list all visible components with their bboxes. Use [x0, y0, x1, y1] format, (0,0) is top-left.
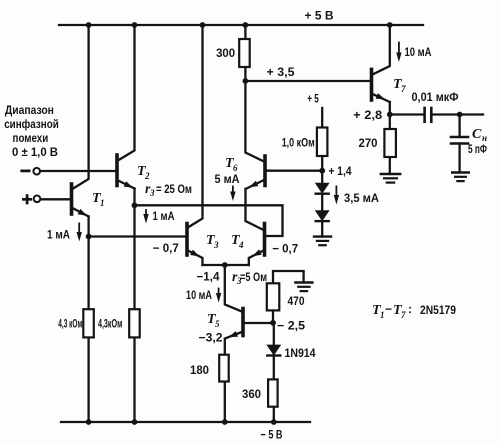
wire T2 emitter down to node: [133, 189, 135, 206]
svg-text:1: 1: [100, 198, 105, 208]
wire emitter bus T3-T4: [203, 264, 249, 266]
svg-text:= 25 Ом: = 25 Ом: [156, 182, 192, 196]
svg-text:2N5179: 2N5179: [420, 303, 456, 317]
wire T3 collector to +5V rail: [187, 25, 203, 228]
svg-text:−: −: [385, 302, 392, 316]
svg-text:1N914: 1N914: [285, 346, 316, 360]
svg-text:+ 2,8: + 2,8: [353, 108, 382, 122]
transistor T2 base bar: [115, 155, 119, 186]
svg-text:=5 Ом: =5 Ом: [240, 270, 267, 284]
junction T2 collector on +5V rail: [132, 22, 138, 28]
diode D2 bias: [316, 211, 329, 221]
wire +3.5 node to T7 base: [245, 80, 369, 82]
wire R 4.3k right to -5V rail: [133, 337, 135, 422]
transistor T5 base bar: [241, 309, 245, 336]
wire +2.8 node to coupling cap: [390, 113, 425, 115]
load capacitor Cn plates: [451, 137, 468, 144]
svg-text:360: 360: [242, 387, 261, 401]
junction R4.3k right on -5V rail: [132, 419, 138, 425]
node +1.4: [319, 168, 325, 174]
wire R270 to ground: [389, 157, 391, 174]
resistor 4.3 kOhm left: [83, 309, 94, 337]
svg-text:+ 5 В: + 5 В: [305, 9, 334, 23]
junction R4.3k left on -5V rail: [86, 419, 92, 425]
plus sign at input: [23, 196, 30, 203]
svg-text:синфазной: синфазной: [4, 117, 59, 131]
svg-text:10 мА: 10 мА: [405, 45, 432, 59]
wire T5 emitter down to R180: [225, 332, 243, 355]
node T3-T4 emitters: [222, 262, 228, 268]
wire R300 to +3.5 node: [244, 67, 246, 81]
T2 emitter arrow: [124, 181, 133, 188]
coupling capacitor 0.01 uF plates: [425, 108, 432, 122]
current arrow 1 mA middle: [145, 210, 147, 216]
node +2.8: [387, 112, 393, 118]
wire T4 emitter to common bus: [249, 250, 265, 265]
svg-text:−3,2: −3,2: [199, 331, 223, 345]
current arrow 10 mA lower: [218, 289, 220, 295]
current arrow 10 mA top: [398, 43, 400, 55]
wire R360 to -5V rail: [273, 407, 275, 422]
current arrow 5 mA: [232, 187, 234, 194]
resistor 180 Ohm: [219, 355, 229, 382]
wire +1.4 node to diode D1: [321, 171, 323, 184]
wire -2.5 node to 1N914: [273, 323, 275, 345]
T2 emitter diagonal: [117, 180, 135, 189]
svg-text:−1,4: −1,4: [197, 270, 220, 284]
junction R300 on +5V rail: [243, 22, 249, 28]
wire T3 emitter to common bus: [187, 250, 203, 265]
T5 emitter arrow: [229, 331, 239, 337]
svg-text:180: 180: [190, 363, 209, 377]
T7 emitter arrow: [376, 93, 385, 99]
junction T7 collector on +5V rail: [387, 22, 393, 28]
wire T6 collector to +3.5 node: [245, 81, 265, 162]
wire node T1emitter to T3 base: [89, 235, 185, 237]
svg-text:1 мА: 1 мА: [153, 209, 175, 223]
resistor 300 Ohm: [239, 39, 250, 67]
wire +5V top rail: [59, 24, 423, 26]
wire T7 emitter down to +2.8 node: [389, 102, 391, 115]
wire R1k to +1.4 node: [321, 156, 323, 171]
wire +2.8 node down to R270: [389, 115, 391, 130]
junction R180 on -5V rail: [222, 419, 228, 425]
svg-text:5 пФ: 5 пФ: [468, 142, 487, 156]
svg-text:+ 1,4: + 1,4: [329, 164, 352, 178]
wire T1 emitter down to node: [87, 217, 89, 237]
wire diode D1 to diode D2: [321, 194, 323, 211]
svg-text:1,0 кОм: 1,0 кОм: [282, 136, 315, 150]
resistor 360 Ohm: [268, 379, 278, 406]
svg-text:0 ± 1,0 В: 0 ± 1,0 В: [12, 145, 58, 159]
wire output node down to Cn: [458, 115, 460, 138]
wire R470 top bend to ground: [273, 271, 304, 283]
ground near R470: [295, 283, 312, 292]
wire minus input to T2 base: [40, 170, 115, 172]
svg-text:1: 1: [380, 310, 385, 320]
junction T3 collector on +5V rail: [200, 22, 206, 28]
svg-text:4: 4: [238, 240, 244, 250]
T1 emitter arrow: [78, 209, 87, 216]
svg-text:3,5 мА: 3,5 мА: [344, 191, 379, 205]
node output: [457, 112, 463, 118]
transistor T6 base bar: [263, 156, 267, 186]
wire T2 emitter node to T4 base wrap: [135, 205, 283, 236]
svg-text:3: 3: [213, 240, 219, 250]
svg-text:− 2,5: − 2,5: [277, 319, 305, 333]
wire T5 base to -2.5 node: [245, 322, 273, 324]
resistor 4.3 kOhm right: [129, 309, 140, 337]
svg-text:10 мА: 10 мА: [186, 288, 212, 302]
wire plus input to T1 base: [40, 198, 69, 200]
svg-text:0,01 мкФ: 0,01 мкФ: [412, 90, 459, 104]
svg-text:2: 2: [144, 171, 150, 181]
wire -5V bottom rail: [61, 421, 310, 423]
junction R360 on -5V rail: [271, 419, 277, 425]
ground below bias diodes: [314, 237, 331, 246]
wire T4 collector up to T6 emitter: [246, 189, 265, 231]
svg-text:5: 5: [215, 319, 220, 329]
transistor T1 base bar: [70, 184, 74, 214]
svg-text:− 5 В: − 5 В: [261, 428, 283, 442]
junction T1 collector on +5V rail: [86, 22, 92, 28]
node -2.5: [270, 320, 276, 326]
wire R 4.3k left to -5V rail: [87, 337, 89, 422]
resistor 270 Ohm: [384, 129, 396, 157]
svg-text:помехи: помехи: [13, 131, 49, 145]
wire Cn to ground: [458, 144, 460, 173]
svg-text:3: 3: [149, 188, 155, 198]
svg-text::: :: [408, 302, 412, 316]
wire 1N914 to R360: [273, 357, 275, 379]
node T2 emitter: [132, 202, 138, 208]
node T1 emitter: [86, 234, 92, 240]
wire R470 to -2.5 node: [272, 310, 274, 322]
wire T1 collector to +5V rail: [72, 25, 89, 190]
minus sign at input: [22, 169, 29, 172]
ground below R270: [381, 174, 400, 183]
ground below Cn: [452, 173, 469, 182]
wire T6 base to +1.4 node: [267, 170, 322, 172]
svg-text:− 0,7: − 0,7: [272, 241, 298, 255]
transistor T3 base bar: [185, 224, 189, 256]
T7 emitter diagonal: [372, 94, 390, 103]
wire coupling cap to output node: [431, 113, 460, 115]
wire T2 collector to +5V rail: [117, 25, 135, 161]
svg-text:C: C: [472, 127, 482, 142]
diode D1 bias: [316, 183, 329, 193]
wire R180 to -5V rail: [224, 382, 226, 423]
wire +5 supply to R1k: [321, 108, 323, 128]
transistor T4 base bar: [263, 224, 267, 256]
input terminal plus circle: [34, 196, 41, 203]
wire node down to R 4.3k left: [87, 237, 89, 310]
T1 emitter diagonal: [72, 208, 89, 217]
svg-text:4,3 кОм: 4,3 кОм: [58, 317, 82, 331]
wire output node to right: [460, 113, 483, 115]
wire emitter bus node down to T5 collector: [225, 265, 243, 312]
wire T7 collector to +5V rail: [372, 25, 390, 75]
current arrow 1 mA left: [78, 223, 80, 233]
svg-text:270: 270: [359, 136, 378, 150]
wire node down to R 4.3k right: [133, 205, 135, 309]
diode 1N914: [267, 345, 280, 355]
svg-text:+ 5: + 5: [307, 92, 319, 106]
svg-text:7: 7: [401, 310, 406, 320]
transistor T7 base bar: [370, 69, 374, 100]
svg-text:1 мА: 1 мА: [47, 228, 70, 242]
input terminal minus circle: [33, 168, 40, 175]
svg-text:4,3кОм: 4,3кОм: [98, 317, 123, 331]
current arrow 3.5 mA: [335, 186, 337, 196]
svg-text:5 мА: 5 мА: [215, 172, 240, 186]
svg-text:− 0,7: − 0,7: [153, 241, 179, 255]
T6 emitter arrow: [249, 181, 258, 188]
resistor 1.0 kOhm: [317, 128, 328, 157]
svg-text:Диапазон: Диапазон: [5, 103, 54, 117]
T3 emitter arrow: [190, 250, 199, 257]
node +3.5: [243, 78, 249, 84]
svg-text:7: 7: [401, 84, 406, 94]
wire +5V rail to R300: [244, 25, 246, 39]
svg-text:300: 300: [216, 46, 235, 60]
resistor 470 Ohm: [267, 283, 280, 310]
svg-text:+ 3,5: + 3,5: [267, 65, 295, 79]
wire T6 emitter diagonal: [246, 180, 266, 190]
T4 emitter arrow: [252, 249, 261, 256]
svg-text:470: 470: [288, 294, 305, 308]
wire diode D2 to ground: [321, 222, 323, 237]
